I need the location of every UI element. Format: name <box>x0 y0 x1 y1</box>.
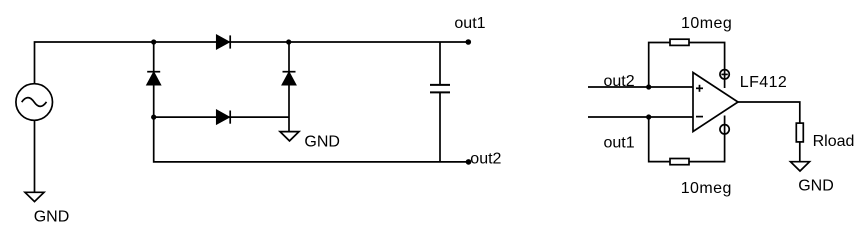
svg-text:10meg: 10meg <box>681 180 732 197</box>
wire mid rail <box>154 116 289 118</box>
junction (mid rail / left branch) <box>151 115 156 120</box>
svg-text:GND: GND <box>798 177 834 194</box>
node out1 terminal <box>466 39 472 45</box>
resistor 10meg (bottom) <box>670 159 689 165</box>
svg-text:Rload: Rload <box>813 133 855 150</box>
op-amp - input mark <box>696 116 703 118</box>
diode (mid rail, pointing right) <box>217 111 230 124</box>
junction (top rail / left branch) <box>151 39 156 44</box>
diode (left branch, pointing up) <box>147 72 160 85</box>
op-amp V- pin circle <box>720 125 729 134</box>
svg-text:out1: out1 <box>454 15 485 32</box>
node out2 terminal <box>466 159 472 165</box>
ground (bridge) <box>280 132 299 141</box>
wire op-amp output to Rload <box>738 102 800 123</box>
svg-text:10meg: 10meg <box>681 15 732 32</box>
svg-text:out1: out1 <box>604 134 635 151</box>
wire Rload to ground <box>799 142 801 162</box>
resistor Rload <box>796 123 803 142</box>
resistor 10meg (top) <box>670 39 689 45</box>
op-amp V+ pin circle <box>720 70 729 79</box>
wire top feedback loop <box>649 43 670 88</box>
wire out2 to op-amp + input <box>588 86 693 88</box>
ground (source) <box>25 192 44 201</box>
wire top rail from source to out1 <box>35 42 468 84</box>
svg-text:GND: GND <box>304 134 340 151</box>
wire left bridge branch <box>154 42 469 162</box>
svg-text:out2: out2 <box>470 151 501 168</box>
wire out1 to op-amp - input <box>588 116 693 118</box>
wire resistor to V- pin <box>689 116 725 162</box>
junction (- input / feedback) <box>646 114 651 119</box>
capacitor C1 <box>430 42 450 162</box>
junction (+ input / feedback) <box>646 84 651 89</box>
AC source V1 <box>16 84 53 121</box>
op-amp + input mark <box>696 85 703 92</box>
wire bottom feedback loop <box>649 117 670 162</box>
svg-text:GND: GND <box>34 209 70 226</box>
diode (top rail, pointing right) <box>217 35 230 48</box>
wire resistor to V+ pin <box>689 43 725 89</box>
wire right bridge branch <box>288 42 290 132</box>
wire source bottom to ground <box>34 120 36 192</box>
diode (right branch, pointing up) <box>283 72 296 85</box>
ground (Rload) <box>791 162 810 171</box>
svg-text:out2: out2 <box>604 73 635 90</box>
op-amp U1 triangle <box>693 73 738 132</box>
svg-text:LF412: LF412 <box>740 74 787 91</box>
junction (top rail / right branch) <box>286 39 291 44</box>
